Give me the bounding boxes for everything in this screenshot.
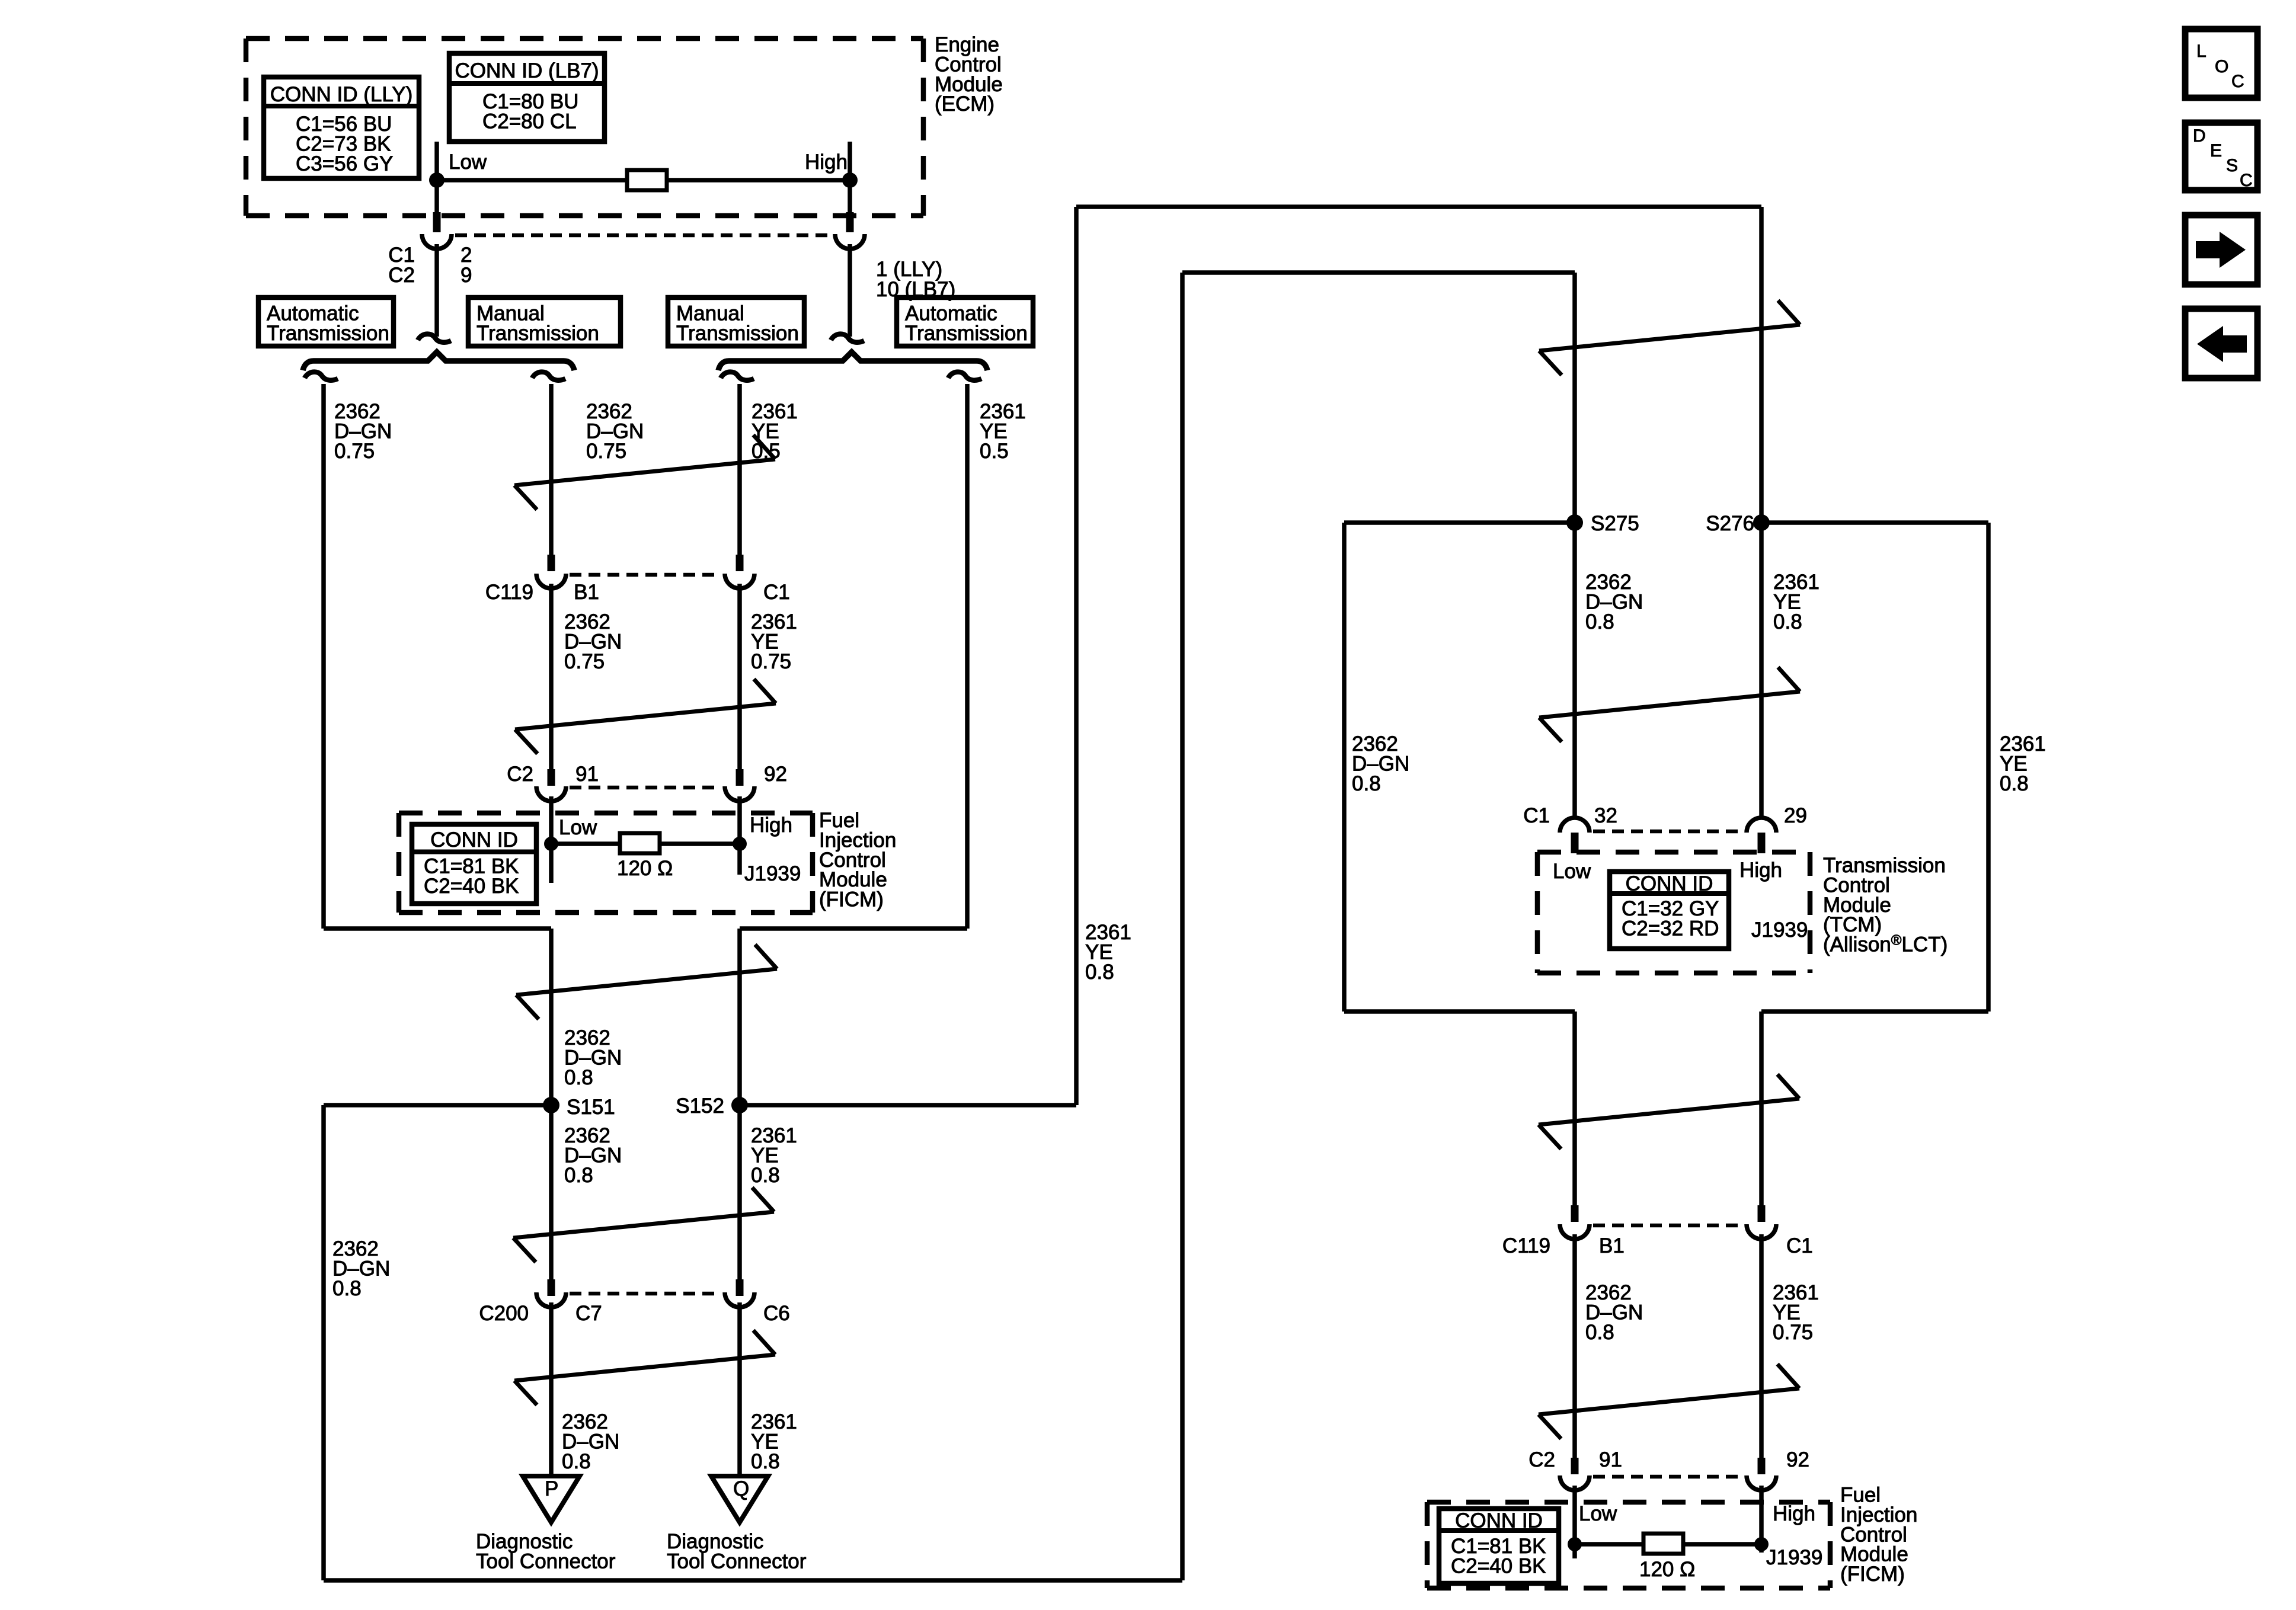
svg-text:(FICM): (FICM) xyxy=(1840,1563,1905,1586)
svg-text:0.75: 0.75 xyxy=(751,650,791,673)
svg-text:S275: S275 xyxy=(1591,512,1639,535)
svg-text:C2: C2 xyxy=(1528,1448,1555,1471)
svg-text:C3=56 GY: C3=56 GY xyxy=(296,152,393,175)
svg-text:C2=32 RD: C2=32 RD xyxy=(1622,917,1719,940)
svg-text:B1: B1 xyxy=(574,581,599,604)
svg-text:High: High xyxy=(750,814,792,837)
svg-text:0.8: 0.8 xyxy=(1585,610,1614,633)
svg-text:0.8: 0.8 xyxy=(751,1450,780,1473)
svg-text:0.8: 0.8 xyxy=(564,1066,593,1089)
svg-text:0.75: 0.75 xyxy=(586,440,626,463)
svg-text:0.8: 0.8 xyxy=(1585,1321,1614,1344)
svg-text:CONN ID: CONN ID xyxy=(1455,1509,1543,1532)
svg-text:0.8: 0.8 xyxy=(564,1164,593,1187)
svg-text:Low: Low xyxy=(559,816,597,839)
svg-text:91: 91 xyxy=(1599,1448,1622,1471)
svg-text:C: C xyxy=(2240,171,2253,190)
svg-text:S151: S151 xyxy=(567,1096,615,1119)
svg-text:(ECM): (ECM) xyxy=(935,92,994,116)
svg-text:C2=40 BK: C2=40 BK xyxy=(424,875,519,898)
svg-text:L: L xyxy=(2196,41,2207,61)
svg-text:0.75: 0.75 xyxy=(1773,1321,1813,1344)
svg-text:O: O xyxy=(2215,57,2228,76)
svg-text:0.8: 0.8 xyxy=(1773,610,1802,633)
svg-text:Transmission: Transmission xyxy=(676,322,799,345)
svg-text:120 Ω: 120 Ω xyxy=(617,857,673,880)
svg-text:92: 92 xyxy=(764,763,787,786)
svg-text:CONN ID: CONN ID xyxy=(1626,872,1713,895)
svg-text:Tool Connector: Tool Connector xyxy=(476,1550,616,1573)
svg-text:Low: Low xyxy=(1553,860,1591,883)
svg-text:C119: C119 xyxy=(485,581,533,604)
svg-text:Transmission: Transmission xyxy=(905,322,1028,345)
svg-text:91: 91 xyxy=(575,763,599,786)
svg-text:Q: Q xyxy=(733,1477,749,1500)
svg-text:J1939: J1939 xyxy=(1751,918,1808,942)
svg-text:0.5: 0.5 xyxy=(980,440,1009,463)
svg-text:C2=80 CL: C2=80 CL xyxy=(482,110,577,133)
svg-text:C200: C200 xyxy=(479,1302,529,1325)
svg-text:High: High xyxy=(1773,1502,1815,1525)
svg-text:D: D xyxy=(2193,126,2206,146)
svg-text:C1: C1 xyxy=(1786,1234,1813,1257)
svg-text:0.8: 0.8 xyxy=(562,1450,591,1473)
svg-text:J1939: J1939 xyxy=(1766,1546,1822,1569)
svg-text:CONN ID: CONN ID xyxy=(430,828,518,852)
svg-text:0.8: 0.8 xyxy=(751,1164,780,1187)
svg-text:C1: C1 xyxy=(763,581,790,604)
svg-text:0.75: 0.75 xyxy=(334,440,375,463)
svg-text:S276: S276 xyxy=(1706,512,1754,535)
svg-text:Transmission: Transmission xyxy=(267,322,389,345)
svg-text:C6: C6 xyxy=(763,1302,790,1325)
svg-text:0.75: 0.75 xyxy=(564,650,605,673)
svg-text:High: High xyxy=(1739,859,1782,882)
svg-text:0.8: 0.8 xyxy=(332,1277,362,1300)
svg-text:High: High xyxy=(805,151,848,174)
svg-text:32: 32 xyxy=(1594,804,1617,827)
svg-text:CONN ID (LB7): CONN ID (LB7) xyxy=(455,59,599,82)
svg-text:S: S xyxy=(2226,156,2238,175)
svg-text:Transmission: Transmission xyxy=(477,322,599,345)
svg-text:0.8: 0.8 xyxy=(1085,961,1114,984)
svg-text:C: C xyxy=(2231,72,2244,91)
svg-text:Tool Connector: Tool Connector xyxy=(667,1550,807,1573)
svg-text:C2: C2 xyxy=(388,264,415,287)
svg-text:0.8: 0.8 xyxy=(2000,772,2029,795)
svg-text:C1: C1 xyxy=(1523,804,1550,827)
svg-text:92: 92 xyxy=(1786,1448,1809,1471)
svg-text:Low: Low xyxy=(449,151,487,174)
svg-text:(FICM): (FICM) xyxy=(819,888,884,911)
svg-text:P: P xyxy=(545,1477,558,1500)
svg-text:B1: B1 xyxy=(1599,1234,1625,1257)
svg-text:J1939: J1939 xyxy=(744,862,801,885)
svg-text:9: 9 xyxy=(461,264,472,287)
svg-text:0.8: 0.8 xyxy=(1352,772,1381,795)
svg-text:CONN ID (LLY): CONN ID (LLY) xyxy=(270,83,413,106)
svg-text:(Allison®LCT): (Allison®LCT) xyxy=(1823,933,1948,956)
svg-text:29: 29 xyxy=(1784,804,1807,827)
svg-text:C2: C2 xyxy=(507,763,533,786)
svg-text:E: E xyxy=(2210,141,2222,161)
svg-text:120 Ω: 120 Ω xyxy=(1639,1558,1695,1581)
svg-text:C119: C119 xyxy=(1502,1234,1550,1257)
svg-text:S152: S152 xyxy=(676,1094,724,1118)
svg-text:C7: C7 xyxy=(575,1302,602,1325)
svg-text:C2=40 BK: C2=40 BK xyxy=(1451,1554,1546,1577)
svg-text:Low: Low xyxy=(1579,1502,1617,1525)
